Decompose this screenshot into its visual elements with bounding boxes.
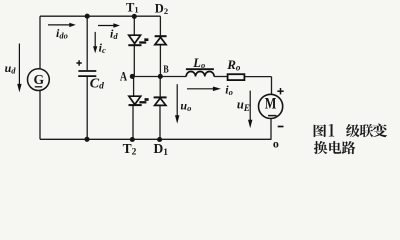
- current arrow i_o: [187, 88, 214, 90]
- voltage arrow u_E: [249, 91, 251, 121]
- svg-text:A: A: [120, 69, 128, 84]
- node junction T2 bottom: [130, 137, 135, 142]
- wire T1 anode lead: [133, 16, 135, 35]
- svg-text:Cd: Cd: [90, 76, 104, 91]
- svg-text:D2: D2: [155, 2, 168, 16]
- svg-text:Ro: Ro: [226, 57, 241, 72]
- wire D1 anode lead: [159, 106, 161, 140]
- wire D2 cathode lead: [159, 16, 161, 35]
- svg-text:uE: uE: [237, 98, 250, 113]
- node junction D1 bottom: [157, 137, 162, 142]
- node junction cap top: [85, 14, 90, 19]
- motor minus terminal: [278, 126, 284, 128]
- wire left rail lower: [39, 91, 41, 140]
- diode D2: [155, 36, 167, 44]
- diode D1: [154, 97, 167, 105]
- generator G: [28, 69, 50, 91]
- svg-text:ud: ud: [5, 61, 17, 76]
- voltage arrow u_o: [176, 84, 178, 116]
- svg-text:Lo: Lo: [192, 56, 205, 70]
- current arrow i_c: [94, 32, 96, 47]
- svg-text:ic: ic: [99, 41, 106, 56]
- wire T2 anode lead: [133, 77, 135, 97]
- svg-text:uo: uo: [180, 98, 191, 113]
- thyristor T2: [129, 96, 149, 105]
- svg-text:ido: ido: [56, 26, 68, 41]
- svg-text:G: G: [34, 73, 45, 88]
- svg-text:io: io: [225, 82, 233, 97]
- wire left rail upper: [39, 16, 41, 68]
- voltage arrow u_d: [18, 44, 20, 85]
- svg-text:D1: D1: [154, 141, 169, 158]
- node junction T1 top: [132, 14, 137, 19]
- wire motor leg lower: [270, 119, 272, 140]
- wire capacitor stem upper: [86, 16, 88, 70]
- wire bottom rail: [40, 138, 272, 140]
- current arrow i_d: [98, 25, 114, 27]
- capacitor plus polarity: [76, 60, 81, 65]
- svg-text:B: B: [163, 63, 169, 75]
- svg-text:T1: T1: [126, 1, 139, 15]
- svg-text:o: o: [273, 137, 279, 151]
- thyristor T1: [128, 35, 148, 45]
- wire capacitor stem lower: [86, 77, 88, 139]
- wire D2 anode lead: [159, 45, 161, 77]
- wire T1 cathode lead: [133, 45, 135, 76]
- wire resistor to motor corner: [244, 76, 271, 78]
- resistor Ro: [228, 74, 245, 80]
- svg-text:T2: T2: [123, 141, 137, 158]
- wire top rail: [40, 15, 160, 17]
- wire motor leg upper: [271, 77, 273, 95]
- capacitor Cd plates: [78, 71, 96, 76]
- wire T2 cathode lead: [132, 105, 134, 139]
- svg-text:M: M: [265, 96, 277, 113]
- motor plus terminal: [277, 88, 283, 94]
- node junction cap bottom: [84, 137, 89, 142]
- svg-text:id: id: [110, 26, 118, 41]
- motor M: [259, 94, 283, 118]
- current arrow i_do: [48, 24, 70, 26]
- caption figure 1 cascade converter circuit line 1: [314, 124, 388, 138]
- node B junction dot: [158, 74, 163, 79]
- wire inductor to resistor: [214, 76, 228, 78]
- wire D1 cathode lead: [159, 77, 161, 97]
- caption line 2: [314, 141, 355, 154]
- node A junction dot: [130, 74, 135, 79]
- wire mid A-B to inductor: [132, 76, 186, 78]
- inductor Lo: [186, 69, 214, 76]
